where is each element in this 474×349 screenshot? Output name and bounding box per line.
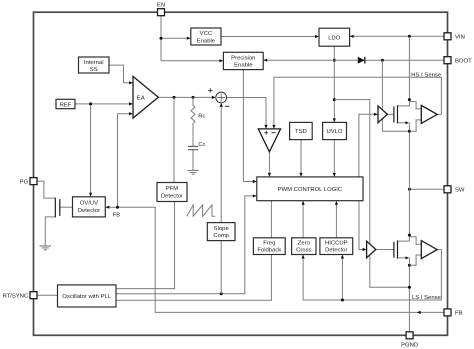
wire HS driver return to source bbox=[382, 119, 409, 131]
wire Freq Foldback to PWM logic bbox=[270, 201, 272, 238]
ground below Cc bbox=[188, 171, 199, 175]
pin PG bbox=[20, 178, 37, 186]
wire VIN rail down to HS drain bbox=[408, 36, 410, 99]
wire HS I Sense net to comparator inverting input bbox=[272, 77, 441, 129]
wire LS I Sense net to Zero Cross and HICCUP bbox=[302, 250, 442, 302]
wire EN net bbox=[160, 16, 224, 63]
block VCC Enable bbox=[191, 28, 221, 45]
op-amp HS current sense amplifier bbox=[409, 102, 437, 132]
pin FB bbox=[444, 309, 463, 317]
block HICCUP Detector bbox=[320, 238, 353, 255]
op-amp EA error amplifier bbox=[133, 76, 158, 118]
wire LDO VCC rail down to UVLO bbox=[333, 46, 336, 122]
transistor HS power MOSFET bbox=[394, 98, 411, 133]
block Freq Foldback bbox=[253, 238, 285, 255]
svg-text:Cross: Cross bbox=[296, 248, 311, 254]
wire Precision Enable to PWM logic bbox=[243, 70, 256, 184]
wire EA output down to PFM Detector bbox=[173, 97, 175, 182]
transistor PG open-drain FET bbox=[55, 198, 60, 218]
pin VIN bbox=[444, 33, 465, 41]
block Oscillator with PLL bbox=[58, 285, 117, 307]
wire LS source to PGND rail bbox=[408, 265, 411, 332]
svg-text:Internal: Internal bbox=[84, 60, 104, 66]
wire PWM logic to LS driver bbox=[359, 201, 367, 251]
wire LS driver return to source bbox=[370, 255, 410, 288]
svg-text:Oscillator with PLL: Oscillator with PLL bbox=[62, 294, 112, 300]
svg-text:EA: EA bbox=[137, 96, 145, 102]
wire HS source to LS drain rail bbox=[408, 131, 410, 235]
svg-text:HS I Sense: HS I Sense bbox=[411, 72, 442, 78]
block PWM CONTROL LOGIC bbox=[257, 177, 363, 201]
block Slope Comp bbox=[207, 223, 235, 241]
block Precision Enable bbox=[223, 52, 263, 69]
svg-text:Rc: Rc bbox=[198, 113, 205, 119]
summing node bbox=[208, 88, 229, 106]
svg-text:Foldback: Foldback bbox=[257, 248, 281, 254]
wire FB to EA inverting input bbox=[118, 112, 134, 207]
comparator PWM bbox=[258, 129, 280, 152]
svg-text:REF: REF bbox=[60, 102, 72, 108]
op-amp LS current sense amplifier bbox=[409, 237, 437, 265]
svg-text:SW: SW bbox=[455, 188, 465, 194]
wire slope comp chain to summing node bbox=[220, 103, 223, 294]
svg-text:Enable: Enable bbox=[234, 63, 253, 69]
wire SW node bbox=[408, 188, 444, 191]
block REF bbox=[56, 99, 75, 108]
svg-text:SS: SS bbox=[90, 67, 98, 73]
svg-text:UVLO: UVLO bbox=[326, 129, 342, 135]
block OV/UV Detector bbox=[73, 197, 106, 217]
svg-text:EN: EN bbox=[157, 3, 165, 9]
wire LS driver to gate bbox=[376, 249, 394, 251]
svg-text:Cc: Cc bbox=[198, 142, 205, 148]
block TSD bbox=[290, 122, 313, 139]
wire PWM logic to HS driver bbox=[359, 113, 378, 177]
transistor LS power MOSFET bbox=[394, 234, 411, 267]
svg-text:PG: PG bbox=[20, 179, 29, 185]
sawtooth ramp symbol bbox=[187, 205, 215, 216]
wire OV/UV to PG gate bbox=[60, 206, 73, 208]
wire EA output to summing node bbox=[158, 96, 216, 99]
wire HICCUP to PWM logic bbox=[335, 201, 338, 238]
wire oscillator to PFM Detector bbox=[116, 202, 175, 289]
svg-text:PGND: PGND bbox=[401, 342, 418, 348]
svg-text:Slope: Slope bbox=[214, 226, 230, 232]
svg-text:VIN: VIN bbox=[455, 35, 465, 41]
diode bootstrap bbox=[358, 57, 365, 64]
svg-text:TSD: TSD bbox=[295, 129, 307, 135]
wire VCC Enable to LDO bbox=[221, 35, 319, 38]
wire BOOT line with arrow into Precision Enable bbox=[263, 59, 444, 62]
svg-text:LS I Sense: LS I Sense bbox=[412, 295, 442, 301]
svg-text:PWM CONTROL LOGIC: PWM CONTROL LOGIC bbox=[278, 187, 343, 193]
svg-text:LDO: LDO bbox=[328, 35, 341, 41]
svg-text:Detector: Detector bbox=[78, 208, 100, 214]
wire REF to EA and OV/UV bbox=[75, 102, 133, 197]
svg-text:VCC: VCC bbox=[200, 31, 213, 37]
wire VCC branch to LS driver top bbox=[334, 100, 370, 244]
wire PG pin to FET drain bbox=[37, 181, 55, 198]
wire PG FET source to ground bbox=[45, 217, 55, 246]
svg-text:OV/UV: OV/UV bbox=[80, 201, 98, 207]
svg-text:Detector: Detector bbox=[161, 193, 183, 199]
wire RT/SYNC to oscillator bbox=[37, 294, 58, 296]
block LDO bbox=[319, 28, 350, 46]
pin SW bbox=[444, 186, 465, 194]
svg-text:Enable: Enable bbox=[197, 38, 216, 44]
pin PGND bbox=[401, 332, 418, 349]
svg-text:FB: FB bbox=[113, 213, 121, 219]
block Internal SS bbox=[79, 57, 110, 73]
wire FB net bbox=[105, 206, 444, 314]
svg-text:Comp: Comp bbox=[213, 233, 229, 239]
wire summing node output to PWM comparator bbox=[227, 98, 268, 129]
wire UVLO to PWM logic bbox=[333, 140, 336, 177]
buffer LS gate driver bbox=[367, 241, 376, 258]
svg-text:HICCUP: HICCUP bbox=[325, 240, 348, 246]
pin RT/SYNC bbox=[2, 292, 37, 300]
wire Internal SS to EA bbox=[109, 65, 133, 84]
wire VIN to LDO bbox=[350, 35, 444, 38]
wire Zero Cross to PWM logic bbox=[302, 201, 305, 238]
svg-text:BOOT: BOOT bbox=[455, 59, 472, 65]
wire oscillator clock to PWM logic bbox=[116, 194, 257, 295]
wire comparator output to PWM logic bbox=[268, 152, 271, 177]
svg-text:Zero: Zero bbox=[298, 240, 311, 246]
svg-text:PFM: PFM bbox=[166, 186, 179, 192]
block Zero Cross bbox=[292, 238, 316, 255]
block PFM Detector bbox=[157, 183, 187, 202]
svg-text:RT/SYNC: RT/SYNC bbox=[2, 294, 28, 300]
wire BOOT rail down to HS driver top bbox=[381, 60, 383, 110]
capacitor Cc bbox=[188, 127, 205, 171]
ground PG source bbox=[40, 246, 51, 250]
pin EN bbox=[157, 3, 165, 16]
pin BOOT bbox=[444, 57, 472, 65]
buffer HS gate driver bbox=[378, 106, 387, 123]
svg-text:Freq: Freq bbox=[263, 240, 275, 246]
svg-text:FB: FB bbox=[455, 311, 463, 317]
wire HS driver to gate bbox=[387, 113, 394, 115]
svg-text:Precision: Precision bbox=[231, 56, 255, 62]
svg-text:Detector: Detector bbox=[325, 248, 347, 254]
wire oscillator to Freq Foldback bbox=[116, 255, 271, 301]
wire TSD to PWM logic bbox=[299, 140, 302, 177]
block UVLO bbox=[323, 122, 347, 139]
resistor Rc bbox=[191, 97, 205, 126]
